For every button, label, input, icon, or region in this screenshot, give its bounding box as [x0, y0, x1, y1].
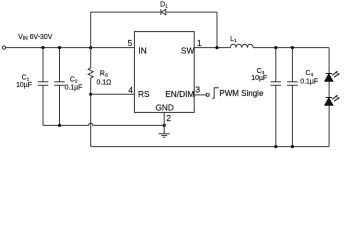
wire top rail right	[166, 11, 217, 13]
wire riser down to SW	[216, 12, 218, 48]
node C4 bottom junction	[291, 145, 294, 148]
svg-text:RS: RS	[138, 89, 150, 99]
IC U1 box	[134, 32, 194, 113]
node C3 top junction	[274, 46, 277, 49]
node C2 gnd junction	[58, 124, 61, 127]
wire gnd bus C1-C2 to IC GND with hop over RS line	[43, 123, 164, 125]
node SW/D1 junction	[215, 46, 218, 49]
capacitor C2	[54, 48, 65, 126]
EN/DIM open terminal	[206, 93, 209, 96]
wire GND pin 2	[163, 112, 165, 133]
svg-text:VIN 6V-30V: VIN 6V-30V	[18, 34, 53, 42]
node C2 top junction	[58, 46, 61, 49]
node C1 top junction	[41, 46, 44, 49]
svg-text:EN/DIM: EN/DIM	[165, 89, 194, 99]
svg-text:3: 3	[195, 85, 200, 95]
node C4 top junction	[291, 46, 294, 49]
node C3 bottom junction	[274, 145, 277, 148]
node gnd pin junction	[163, 124, 166, 127]
node RS sense junction	[89, 93, 92, 96]
svg-text:5: 5	[128, 38, 133, 48]
svg-text:SW: SW	[181, 45, 195, 55]
resistor RS	[88, 48, 93, 95]
wire RS pin stub	[91, 93, 135, 95]
wire RS node down to bottom rail	[90, 94, 92, 146]
input terminal	[2, 46, 5, 49]
capacitor C1	[38, 48, 49, 126]
wire top rail left	[91, 11, 161, 13]
svg-text:10µF: 10µF	[16, 82, 32, 89]
svg-text:0.1µF: 0.1µF	[65, 85, 83, 92]
svg-text:1: 1	[197, 38, 202, 48]
LED D2	[325, 71, 340, 81]
svg-text:IN: IN	[138, 46, 146, 56]
wire SW to inductor	[194, 47, 230, 49]
diode D1	[161, 9, 166, 15]
svg-text:D1: D1	[160, 2, 168, 9]
wire EN/DIM stub	[194, 94, 206, 96]
svg-text:10µF: 10µF	[251, 75, 267, 82]
wire inductor to output node	[253, 47, 329, 49]
inductor L1	[230, 44, 253, 47]
svg-text:GND: GND	[155, 103, 173, 113]
LED D3	[325, 95, 340, 105]
ground symbol	[159, 134, 170, 138]
PWM step glyph	[212, 88, 219, 99]
svg-text:4: 4	[128, 85, 133, 95]
svg-text:0.1Ω: 0.1Ω	[97, 80, 112, 87]
wire LED string drop	[328, 48, 330, 147]
capacitor C4	[287, 48, 298, 147]
wire riser to diode rail	[90, 12, 92, 48]
node RS/D1 junction	[89, 46, 92, 49]
capacitor C3	[271, 48, 282, 147]
wire bottom rail	[91, 146, 329, 148]
svg-text:0.1µF: 0.1µF	[300, 78, 318, 85]
wire VIN rail	[6, 47, 135, 49]
svg-text:PWM Single: PWM Single	[219, 89, 264, 98]
svg-text:2: 2	[166, 113, 171, 123]
